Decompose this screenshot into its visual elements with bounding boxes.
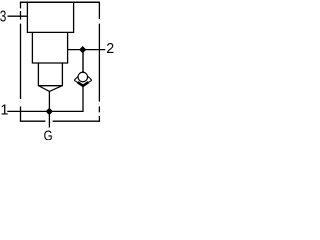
svg-text:1: 1 bbox=[1, 103, 9, 119]
wire: port 1 line with elbow up to check valve bbox=[7, 86, 83, 112]
check valve upper diamond edges bbox=[74, 71, 92, 80]
wire: from port 2 node down to check valve bbox=[82, 50, 84, 72]
enclosure dashed border: top side (merged with valve body top edge) bbox=[20, 1, 100, 3]
enclosure dashed border: right side bbox=[98, 2, 100, 122]
svg-text:2: 2 bbox=[106, 41, 114, 57]
svg-text:G: G bbox=[44, 127, 53, 140]
check valve ball bbox=[78, 72, 88, 82]
wire: stem from cone to node bbox=[48, 91, 50, 111]
wire: port 3 line bbox=[8, 15, 28, 17]
valve body R3 bottom edge bbox=[38, 85, 62, 87]
valve body section R3 (lower rectangle) bbox=[38, 63, 62, 86]
wire: G stem through bottom border bbox=[48, 111, 50, 127]
check valve seat (thin V edges) bbox=[74, 80, 92, 86]
wire: port 2 line bbox=[68, 49, 106, 51]
enclosure dashed border: left side bbox=[20, 2, 22, 122]
junction node dot on port 1 line bbox=[46, 108, 53, 116]
valve body section R2 (middle rectangle) bbox=[32, 32, 67, 63]
enclosure dashed border: bottom side bbox=[20, 120, 100, 122]
junction node dot on port 2 line bbox=[79, 46, 86, 53]
valve body section R1 (top rectangle) bbox=[27, 2, 73, 32]
check valve seat (thick center V) bbox=[78, 82, 89, 86]
svg-text:3: 3 bbox=[0, 9, 6, 26]
poppet cone V under body bbox=[38, 86, 62, 92]
